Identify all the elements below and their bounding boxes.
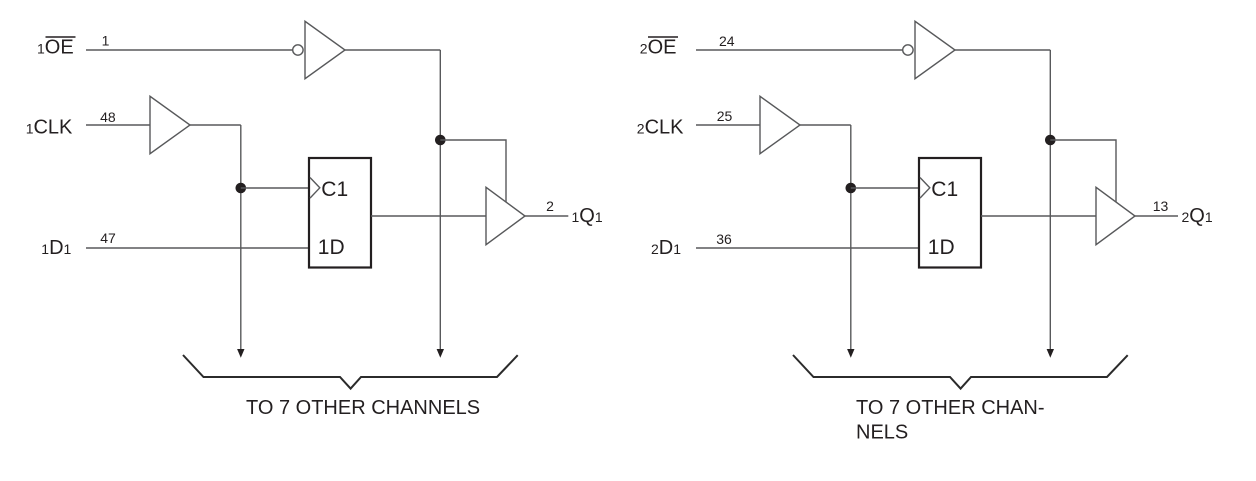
svg-text:1D: 1D <box>318 236 345 259</box>
inverter U5 triangle (2OE buffer) <box>915 21 955 78</box>
arrowhead of OE rail <box>1047 349 1054 358</box>
wire: clock tap to flip-flop <box>241 187 309 189</box>
svg-text:NELS: NELS <box>856 422 908 444</box>
svg-text:13: 13 <box>1153 198 1169 214</box>
junction dot on CLK rail <box>236 183 247 194</box>
wire: 2D1 input to flip-flop <box>696 247 919 249</box>
wire: clock buffer output horizontal <box>190 124 241 126</box>
clock wedge of flip-flop <box>310 178 320 199</box>
wire: CLK vertical rail <box>850 125 852 349</box>
brace (to 7 other channels, right) <box>793 355 1128 389</box>
wire: 2Q1 output <box>1135 215 1178 217</box>
brace (to 7 other channels, left) <box>183 355 518 389</box>
svg-text:1CLK: 1CLK <box>26 117 73 139</box>
arrowhead of CLK rail <box>237 349 244 358</box>
svg-text:2Q1: 2Q1 <box>1182 205 1213 227</box>
clock wedge of flip-flop <box>920 178 930 199</box>
arrowhead of CLK rail <box>847 349 854 358</box>
wire: flip-flop Q output <box>371 215 486 217</box>
svg-text:1Q1: 1Q1 <box>572 205 603 227</box>
inverter bubble U5 <box>903 45 913 55</box>
svg-text:TO 7 OTHER CHANNELS: TO 7 OTHER CHANNELS <box>246 397 480 419</box>
wire: CLK vertical rail <box>240 125 242 349</box>
output buffer U8 triangle <box>1096 187 1135 244</box>
svg-text:C1: C1 <box>321 178 348 201</box>
output buffer U4 triangle <box>486 187 525 244</box>
flip-flop U7 box <box>919 158 981 268</box>
flip-flop U3 box <box>309 158 371 268</box>
svg-text:2D1: 2D1 <box>651 237 681 259</box>
junction dot on OE rail <box>1045 135 1056 146</box>
inverter bubble U1 <box>293 45 303 55</box>
wire: enable tap to output buffer <box>440 140 506 202</box>
inverter U1 triangle (1OE buffer) <box>305 21 345 78</box>
junction dot on CLK rail <box>846 183 857 194</box>
svg-text:C1: C1 <box>931 178 958 201</box>
svg-text:36: 36 <box>716 231 732 247</box>
wire: enable tap to output buffer <box>1050 140 1116 202</box>
wire: 1Q1 output <box>525 215 568 217</box>
svg-text:25: 25 <box>717 108 733 124</box>
svg-text:2OE: 2OE <box>640 37 677 59</box>
svg-text:1D1: 1D1 <box>41 237 71 259</box>
wire: clock buffer output horizontal <box>800 124 851 126</box>
arrowhead of OE rail <box>437 349 444 358</box>
wire: OE vertical rail <box>439 50 441 349</box>
wire: 2CLK input to buffer <box>696 124 760 126</box>
svg-text:2CLK: 2CLK <box>637 117 684 139</box>
wire: 1D1 input to flip-flop <box>86 247 309 249</box>
svg-text:48: 48 <box>100 109 116 125</box>
svg-text:1: 1 <box>102 33 110 49</box>
svg-text:1D: 1D <box>928 236 955 259</box>
junction dot on OE rail <box>435 135 446 146</box>
wire: 1CLK input to buffer <box>86 124 150 126</box>
svg-text:1OE: 1OE <box>37 37 74 59</box>
buffer U2 triangle (1CLK buffer) <box>150 96 190 153</box>
svg-text:2: 2 <box>546 198 554 214</box>
svg-text:TO 7 OTHER CHAN-: TO 7 OTHER CHAN- <box>856 397 1045 419</box>
wire: inverter output horizontal <box>345 49 440 51</box>
overline of 2OE <box>648 36 678 38</box>
overline of 1OE <box>46 36 76 38</box>
wire: OE vertical rail <box>1049 50 1051 349</box>
buffer U6 triangle (2CLK buffer) <box>760 96 800 153</box>
wire: clock tap to flip-flop <box>851 187 919 189</box>
wire: inverter output horizontal <box>955 49 1050 51</box>
wire: 1OE input to inverter <box>86 49 292 51</box>
wire: 2OE input to inverter <box>696 49 902 51</box>
svg-text:24: 24 <box>719 33 735 49</box>
svg-text:47: 47 <box>100 230 116 246</box>
wire: flip-flop Q output <box>981 215 1096 217</box>
